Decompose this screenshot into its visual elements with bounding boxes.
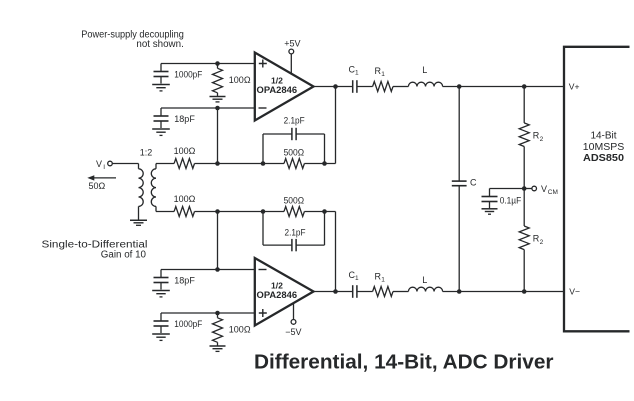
wire inverting input row top amp	[161, 107, 255, 109]
svg-text:500Ω: 500Ω	[284, 195, 305, 205]
resistor 100ohm input top	[174, 146, 196, 168]
wire feedback to output bottom	[335, 212, 337, 292]
svg-text:18pF: 18pF	[174, 275, 195, 285]
wire noninverting input row top amp	[161, 63, 255, 65]
svg-text:2: 2	[540, 239, 544, 246]
50 ohm source impedance arrow	[87, 175, 116, 191]
title: Differential, 14-Bit, ADC Driver	[254, 352, 554, 374]
svg-text:V: V	[541, 184, 547, 194]
svg-text:1/2: 1/2	[271, 280, 283, 290]
node inverting junction top	[215, 106, 220, 111]
ground 1000pF top	[152, 85, 170, 91]
svg-text:18pF: 18pF	[174, 114, 195, 124]
svg-text:50Ω: 50Ω	[89, 181, 106, 191]
resistor R2 bottom	[519, 189, 543, 292]
node inverting junction bottom	[215, 267, 220, 272]
wire inverting to summing junction top	[217, 108, 219, 164]
wire C1 to R1 bottom	[357, 291, 373, 293]
note: power-supply decoupling	[81, 29, 184, 50]
capacitor 2.1pF feedback bottom	[263, 212, 325, 252]
capacitor C differential	[452, 87, 477, 292]
wire op amp output bottom	[314, 291, 353, 293]
svg-text:1000pF: 1000pF	[174, 319, 202, 329]
ground 0.1uF	[482, 209, 498, 214]
wire L to ADC V+	[443, 86, 564, 88]
svg-text:not shown.: not shown.	[136, 39, 183, 50]
svg-text:500Ω: 500Ω	[284, 147, 305, 157]
svg-text:100Ω: 100Ω	[229, 75, 251, 85]
node junction bias bottom	[215, 311, 220, 316]
capacitor 0.1uF bypass	[482, 189, 525, 209]
ground transformer primary	[130, 220, 147, 225]
svg-text:100Ω: 100Ω	[174, 194, 196, 204]
node output junction top	[333, 84, 338, 89]
wire summing to inverting bottom	[217, 212, 219, 270]
node summing junction top	[215, 161, 220, 166]
ground bias resistor bottom	[210, 346, 226, 351]
resistor R1 top	[373, 66, 393, 92]
wire resistor to feedback node top	[195, 163, 264, 165]
svg-text:100Ω: 100Ω	[174, 146, 196, 156]
wire secondary top to resistor	[156, 163, 174, 165]
wire noninverting input row bottom amp	[161, 312, 255, 314]
resistor 100ohm bias bottom	[213, 313, 251, 346]
wire resistor to feedback node bottom	[195, 211, 264, 213]
ADC U2 ADS850 block	[564, 47, 630, 332]
svg-text:2.1pF: 2.1pF	[284, 116, 305, 126]
svg-text:L: L	[422, 275, 427, 285]
node junction bias top	[215, 61, 220, 66]
+5V supply terminal	[284, 39, 300, 74]
wire R1 to L top	[393, 86, 408, 88]
svg-text:V: V	[96, 159, 102, 169]
resistor 500ohm feedback top	[263, 147, 336, 168]
svg-text:Differential, 14-Bit, ADC Driv: Differential, 14-Bit, ADC Driver	[254, 352, 554, 374]
svg-text:10MSPS: 10MSPS	[583, 142, 625, 153]
resistor R2 top	[519, 87, 543, 189]
svg-text:1: 1	[355, 275, 359, 282]
inductor L top	[408, 65, 442, 87]
node VI input terminal	[96, 159, 112, 171]
node feedback left top	[261, 161, 266, 166]
svg-text:100Ω: 100Ω	[229, 325, 251, 335]
node summing junction bottom	[215, 209, 220, 214]
capacitor 18pF top	[154, 108, 196, 128]
node feedback right top	[322, 161, 327, 166]
wire L to ADC V-	[443, 291, 564, 293]
svg-text:14-Bit: 14-Bit	[590, 130, 616, 141]
svg-text:0.1µF: 0.1µF	[500, 195, 522, 205]
capacitor 2.1pF feedback top	[263, 116, 325, 164]
ground 18pF bottom	[152, 291, 170, 297]
-5V supply terminal	[285, 303, 301, 337]
node C branch top	[457, 84, 462, 89]
transformer T1 1:2	[139, 148, 157, 221]
wire inverting input row bottom amp	[161, 269, 255, 271]
svg-text:ADS850: ADS850	[583, 153, 624, 164]
svg-text:C: C	[470, 177, 477, 187]
svg-text:2: 2	[540, 136, 544, 143]
svg-text:−5V: −5V	[285, 327, 301, 337]
op-amp U1A 1/2 OPA2846	[255, 53, 314, 121]
capacitor C1 top	[349, 64, 360, 93]
svg-text:1: 1	[381, 71, 385, 78]
ground bias resistor top	[210, 97, 226, 102]
node VCM terminal	[524, 184, 558, 196]
op-amp U1B 1/2 OPA2846	[255, 258, 314, 326]
svg-text:1: 1	[355, 70, 359, 77]
node feedback left bottom	[261, 209, 266, 214]
wire op amp output top	[314, 86, 353, 88]
wire C1 to R1 top	[357, 86, 373, 88]
svg-text:OPA2846: OPA2846	[257, 290, 298, 300]
node output junction bottom	[333, 289, 338, 294]
wire secondary bottom to resistor	[156, 211, 174, 213]
svg-text:+5V: +5V	[284, 39, 300, 49]
svg-text:2.1pF: 2.1pF	[285, 227, 306, 237]
ground 1000pF bottom	[152, 334, 170, 340]
svg-text:Gain of 10: Gain of 10	[101, 249, 147, 260]
capacitor C1 bottom	[349, 270, 360, 298]
wire VI to transformer	[112, 163, 138, 165]
resistor 100ohm bias top	[213, 64, 251, 97]
svg-text:V+: V+	[569, 82, 580, 92]
node feedback right bottom	[322, 209, 327, 214]
svg-text:OPA2846: OPA2846	[257, 85, 298, 95]
wire feedback to output top	[335, 87, 337, 164]
node VCM junction	[522, 186, 527, 191]
svg-text:1/2: 1/2	[271, 75, 283, 85]
svg-text:1000pF: 1000pF	[174, 69, 202, 79]
resistor 500ohm feedback bottom	[263, 195, 336, 216]
capacitor 1000pF bottom	[154, 313, 203, 333]
svg-text:I: I	[103, 164, 105, 171]
svg-text:1: 1	[381, 277, 385, 284]
node R2 branch bottom	[522, 289, 527, 294]
capacitor 1000pF top	[154, 64, 203, 84]
resistor 100ohm input bottom	[174, 194, 196, 217]
inductor L bottom	[408, 275, 442, 291]
node C branch bottom	[457, 289, 462, 294]
resistor R1 bottom	[373, 271, 393, 296]
svg-text:L: L	[422, 65, 427, 75]
svg-text:CM: CM	[548, 189, 558, 196]
svg-text:V−: V−	[569, 287, 580, 297]
capacitor 18pF bottom	[154, 270, 196, 290]
node R2 branch top	[522, 84, 527, 89]
wire R1 to L bottom	[393, 291, 408, 293]
svg-text:1:2: 1:2	[140, 148, 153, 158]
ground 18pF top	[152, 129, 170, 135]
note: single-to-differential gain	[42, 239, 148, 260]
